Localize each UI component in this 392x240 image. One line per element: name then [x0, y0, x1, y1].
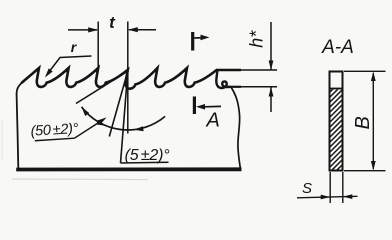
- arc arrowhead at back-slope line: [82, 107, 90, 116]
- back-slope extension line (50 deg side): [76, 71, 128, 104]
- svg-text:S: S: [302, 180, 312, 197]
- svg-text:A-A: A-A: [321, 37, 354, 58]
- label h* (rotated): [247, 30, 267, 48]
- top flat edge + h* top extension line: [217, 69, 241, 71]
- svg-text:(5 ±2)°: (5 ±2)°: [125, 147, 171, 164]
- dimension S : leader/dimension line with arrows: [297, 196, 358, 198]
- section root line inside: [330, 88, 343, 90]
- blade bottom thick edge: [16, 167, 241, 171]
- dimension h* : top arrow: [270, 22, 272, 70]
- label B (rotated): [352, 116, 374, 129]
- dimension B : dimension line with arrows: [372, 73, 374, 169]
- faint scan smudge under bottom edge: [12, 178, 148, 181]
- tooth face extension line L3 down to 5deg label: [121, 71, 128, 163]
- svg-text:A: A: [206, 109, 220, 131]
- section cross-section rectangle: [330, 72, 343, 171]
- arc arrowhead pointing to face line L2: [96, 120, 106, 126]
- dimension h* : bottom arrow: [270, 87, 272, 112]
- tooth root line + h* bottom extension line: [228, 86, 241, 88]
- saw blade profile outline with teeth: [22, 68, 217, 89]
- section hatching: [326, 76, 346, 191]
- label (50 ±2)° with underline and leader arrow: [30, 121, 79, 140]
- last tooth face and gullet hook at right end: [216, 71, 230, 89]
- svg-text:t: t: [109, 13, 116, 32]
- dimension t : left arrow: [68, 29, 97, 31]
- arc arrowhead near vertical line pointing left: [134, 126, 144, 131]
- svg-text:B: B: [352, 116, 374, 129]
- big angle arc: [82, 107, 166, 130]
- blade left edge: [17, 83, 22, 168]
- dimension S : extension lines: [330, 172, 343, 203]
- tooth face extension line L2: [109, 71, 128, 137]
- dimension B : extension lines: [344, 71, 386, 170]
- svg-text:(50 ±2)°: (50 ±2)°: [30, 121, 79, 140]
- section cut mark top (thick bar + arrow): [191, 32, 194, 51]
- dimension t : right extension line + vertical angle reference: [127, 22, 129, 134]
- svg-text:r: r: [71, 39, 78, 55]
- dimension t : right arrow: [129, 29, 156, 31]
- blade right break line (wavy): [231, 88, 240, 168]
- dimension t : left extension line: [97, 22, 99, 71]
- svg-text:h*: h*: [247, 30, 267, 48]
- section cut mark bottom (thick bar + arrow): [193, 97, 196, 115]
